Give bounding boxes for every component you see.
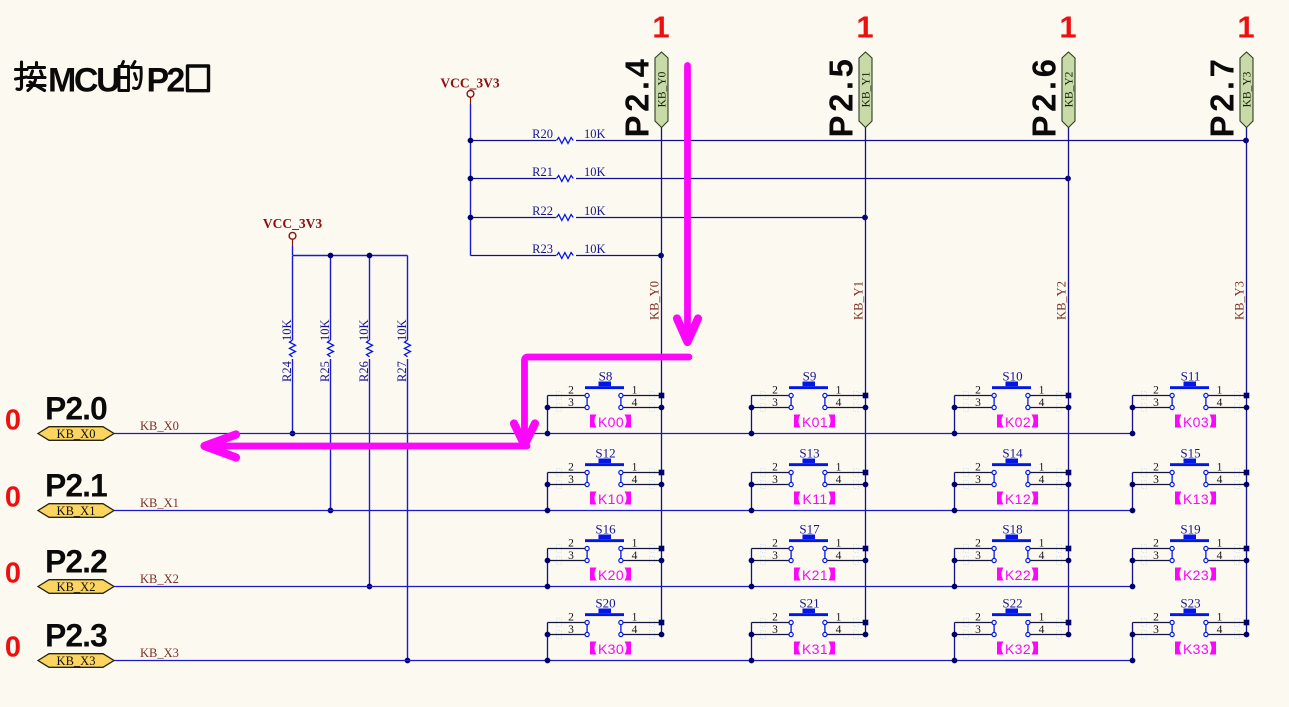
svg-text:3: 3 — [772, 474, 778, 486]
switch S18 (K22) — [955, 522, 1069, 565]
svg-text:K32: K32 — [1005, 641, 1031, 657]
svg-text:KB_X3: KB_X3 — [57, 654, 96, 668]
resistor R22 10K — [471, 204, 866, 221]
connector KB_Y3 (green port) — [1240, 52, 1254, 128]
svg-text:K22: K22 — [1005, 567, 1031, 583]
svg-text:VCC_3V3: VCC_3V3 — [440, 76, 499, 91]
svg-text:3: 3 — [1153, 474, 1159, 486]
junction S13 pin4 / KB_Y1 — [863, 482, 869, 488]
junction R27 / KB_X3 — [405, 658, 411, 664]
svg-text:4: 4 — [632, 474, 638, 486]
svg-text:R25: R25 — [318, 361, 332, 382]
key label K30 — [590, 641, 631, 657]
svg-text:K20: K20 — [598, 567, 624, 583]
svg-text:1: 1 — [1217, 462, 1223, 474]
svg-text:K31: K31 — [802, 641, 828, 657]
svg-text:KB_Y0: KB_Y0 — [648, 281, 662, 320]
svg-text:S20: S20 — [595, 596, 615, 611]
svg-text:4: 4 — [836, 397, 842, 409]
junction S23 / KB_X3 — [1130, 658, 1136, 664]
svg-text:0: 0 — [5, 405, 21, 437]
wire S11 left leg — [1132, 396, 1134, 434]
junction S10 pin4 / KB_Y2 — [1066, 405, 1072, 411]
svg-text:2: 2 — [772, 462, 778, 474]
svg-text:10K: 10K — [318, 319, 332, 341]
key label K21 — [794, 567, 835, 583]
junction S17 pin1 / KB_Y1 — [863, 546, 869, 552]
key label K12 — [997, 491, 1038, 507]
junction S14 / KB_X1 — [952, 508, 958, 514]
junction S14 pin4 / KB_Y2 — [1066, 482, 1072, 488]
svg-text:1: 1 — [632, 538, 638, 550]
svg-text:P2.2: P2.2 — [45, 544, 107, 580]
junction S21 pin1 / KB_Y1 — [863, 620, 869, 626]
svg-text:K10: K10 — [598, 491, 624, 507]
switch S15 (K13) — [1133, 446, 1247, 489]
junction S18 pin4 / KB_Y2 — [1066, 558, 1072, 564]
junction R23 / KB_Y0 — [658, 253, 664, 259]
svg-text:KB_X1: KB_X1 — [140, 496, 179, 510]
junction S8 pin4 / KB_Y0 — [659, 405, 665, 411]
junction S17 / KB_X2 — [749, 584, 755, 590]
svg-text:P2.5: P2.5 — [823, 56, 860, 138]
svg-text:3: 3 — [975, 550, 981, 562]
svg-text:S10: S10 — [1002, 369, 1022, 384]
junction S18 pin3 — [952, 558, 958, 564]
svg-text:4: 4 — [1217, 550, 1223, 562]
junction S15 / KB_X1 — [1130, 508, 1136, 514]
key label K03 — [1175, 414, 1216, 430]
junction S13 pin3 — [749, 482, 755, 488]
resistor R23 10K — [471, 242, 662, 259]
svg-text:S13: S13 — [799, 446, 819, 461]
connector KB_Y2 (green port) — [1062, 52, 1076, 128]
svg-text:KB_X0: KB_X0 — [57, 427, 96, 441]
junction S21 pin3 — [749, 632, 755, 638]
svg-text:3: 3 — [568, 397, 574, 409]
svg-text:2: 2 — [772, 538, 778, 550]
resistor R20 10K — [471, 127, 1247, 144]
svg-text:1: 1 — [856, 10, 873, 45]
key label K33 — [1175, 641, 1216, 657]
svg-text:R22: R22 — [532, 204, 553, 218]
key label K23 — [1175, 567, 1216, 583]
svg-text:1: 1 — [1217, 612, 1223, 624]
switch S11 (K03) — [1133, 369, 1247, 412]
key label K31 — [794, 641, 835, 657]
resistor R21 10K — [471, 165, 1069, 182]
junction VCC bus / R20 — [468, 138, 474, 144]
wire VCC bus horizontal — [292, 246, 294, 255]
svg-text:1: 1 — [836, 462, 842, 474]
junction S21 / KB_X3 — [749, 658, 755, 664]
svg-text:K11: K11 — [802, 491, 827, 507]
switch S9 (K01) — [752, 369, 866, 412]
svg-text:1: 1 — [1039, 612, 1045, 624]
svg-text:4: 4 — [836, 550, 842, 562]
connector KB_Y1 (green port) — [859, 52, 873, 128]
svg-text:S19: S19 — [1180, 522, 1200, 537]
svg-text:3: 3 — [568, 550, 574, 562]
power VCC_3V3 (lower-left) — [263, 216, 322, 246]
junction S9 / KB_X0 — [749, 431, 755, 437]
wire S9 left leg — [751, 396, 753, 434]
svg-text:3: 3 — [975, 397, 981, 409]
junction VCC bus / R26 — [367, 253, 373, 259]
wire S17 left leg — [751, 549, 753, 587]
junction S11 pin3 — [1130, 405, 1136, 411]
junction S22 pin4 / KB_Y2 — [1066, 632, 1072, 638]
annotation arrow left along KB_X0 — [205, 435, 528, 458]
svg-text:3: 3 — [772, 397, 778, 409]
svg-text:3: 3 — [568, 624, 574, 636]
junction VCC bus / R22 — [468, 215, 474, 221]
svg-text:1: 1 — [632, 612, 638, 624]
junction S16 pin3 — [545, 558, 551, 564]
svg-text:P2.7: P2.7 — [1204, 56, 1241, 138]
svg-text:2: 2 — [975, 385, 981, 397]
svg-text:2: 2 — [568, 538, 574, 550]
wire VCC bus vertical — [470, 104, 472, 256]
svg-text:S17: S17 — [799, 522, 820, 537]
svg-text:S23: S23 — [1180, 596, 1200, 611]
svg-text:2: 2 — [975, 538, 981, 550]
svg-text:2: 2 — [568, 612, 574, 624]
connector KB_X1 (yellow port) — [38, 504, 114, 518]
svg-text:10K: 10K — [280, 319, 294, 341]
junction S15 pin4 / KB_Y3 — [1244, 482, 1250, 488]
junction S14 pin1 / KB_Y2 — [1066, 470, 1072, 476]
svg-text:R24: R24 — [280, 360, 294, 382]
svg-text:4: 4 — [1217, 624, 1223, 636]
svg-text:2: 2 — [772, 385, 778, 397]
wire column KB_Y2 — [1068, 128, 1070, 635]
svg-text:2: 2 — [568, 385, 574, 397]
svg-text:VCC_3V3: VCC_3V3 — [263, 216, 322, 231]
svg-text:10K: 10K — [584, 165, 606, 179]
svg-text:2: 2 — [1153, 462, 1159, 474]
svg-text:KB_Y1: KB_Y1 — [861, 71, 873, 107]
junction S23 pin3 — [1130, 632, 1136, 638]
svg-text:P2.4: P2.4 — [619, 56, 656, 138]
junction S10 / KB_X0 — [952, 431, 958, 437]
power VCC_3V3 (upper) — [440, 76, 499, 105]
key label K10 — [590, 491, 631, 507]
svg-text:1: 1 — [1039, 538, 1045, 550]
svg-text:1: 1 — [632, 385, 638, 397]
svg-text:K21: K21 — [802, 567, 828, 583]
svg-text:3: 3 — [975, 624, 981, 636]
junction S20 pin1 / KB_Y0 — [659, 620, 665, 626]
svg-text:KB_X0: KB_X0 — [140, 419, 179, 433]
key label K01 — [794, 414, 835, 430]
junction S9 pin4 / KB_Y1 — [863, 405, 869, 411]
wire column KB_Y1 — [865, 128, 867, 635]
junction S18 pin1 / KB_Y2 — [1066, 546, 1072, 552]
svg-text:3: 3 — [772, 624, 778, 636]
junction S17 pin4 / KB_Y1 — [863, 558, 869, 564]
resistor R26 10K — [357, 256, 373, 587]
junction S12 pin1 / KB_Y0 — [659, 470, 665, 476]
wire S12 left leg — [547, 473, 549, 511]
svg-text:KB_X2: KB_X2 — [57, 580, 96, 594]
junction S11 pin1 / KB_Y3 — [1244, 393, 1250, 399]
junction R22 / KB_Y1 — [862, 215, 868, 221]
svg-text:4: 4 — [1217, 397, 1223, 409]
wire row KB_X2 — [114, 586, 1133, 588]
junction S23 pin4 / KB_Y3 — [1244, 632, 1250, 638]
svg-text:4: 4 — [632, 550, 638, 562]
svg-text:4: 4 — [1039, 550, 1045, 562]
junction S19 pin4 / KB_Y3 — [1244, 558, 1250, 564]
switch S13 (K11) — [752, 446, 866, 489]
svg-text:R20: R20 — [532, 127, 553, 141]
junction S9 pin3 — [749, 405, 755, 411]
svg-text:S15: S15 — [1180, 446, 1200, 461]
svg-text:1: 1 — [1059, 10, 1076, 45]
svg-text:K00: K00 — [598, 414, 624, 430]
junction R24 / KB_X0 — [290, 431, 296, 437]
svg-text:4: 4 — [632, 397, 638, 409]
svg-text:K02: K02 — [1005, 414, 1031, 430]
svg-text:2: 2 — [1153, 538, 1159, 550]
junction S13 pin1 / KB_Y1 — [863, 470, 869, 476]
switch S21 (K31) — [752, 596, 866, 639]
wire S15 left leg — [1132, 473, 1134, 511]
junction S11 pin4 / KB_Y3 — [1244, 405, 1250, 411]
junction S16 / KB_X2 — [545, 584, 551, 590]
wire column KB_Y3 — [1246, 128, 1248, 635]
wire S22 left leg — [954, 623, 956, 661]
svg-text:K30: K30 — [598, 641, 624, 657]
junction S23 pin1 / KB_Y3 — [1244, 620, 1250, 626]
junction S22 pin1 / KB_Y2 — [1066, 620, 1072, 626]
wire S19 left leg — [1132, 549, 1134, 587]
svg-text:R21: R21 — [532, 165, 553, 179]
switch S16 (K20) — [548, 522, 662, 565]
svg-text:KB_X3: KB_X3 — [140, 646, 179, 660]
junction S8 pin1 / KB_Y0 — [659, 393, 665, 399]
svg-text:S22: S22 — [1002, 596, 1022, 611]
svg-text:0: 0 — [5, 558, 21, 590]
wire S14 left leg — [954, 473, 956, 511]
svg-text:1: 1 — [1217, 385, 1223, 397]
junction S21 pin4 / KB_Y1 — [863, 632, 869, 638]
junction S15 pin3 — [1130, 482, 1136, 488]
connector KB_X2 (yellow port) — [38, 580, 114, 594]
wire S8 left leg — [547, 396, 549, 434]
svg-text:MCU: MCU — [48, 62, 119, 100]
svg-text:P2.1: P2.1 — [45, 468, 107, 504]
svg-text:4: 4 — [632, 624, 638, 636]
junction S16 pin1 / KB_Y0 — [659, 546, 665, 552]
junction S10 pin1 / KB_Y2 — [1066, 393, 1072, 399]
junction S17 pin3 — [749, 558, 755, 564]
wire S13 left leg — [751, 473, 753, 511]
wire row KB_X3 — [114, 660, 1133, 662]
svg-text:K12: K12 — [1005, 491, 1031, 507]
svg-text:1: 1 — [632, 462, 638, 474]
resistor R24 10K — [280, 256, 296, 434]
svg-text:S21: S21 — [799, 596, 819, 611]
junction S15 pin1 / KB_Y3 — [1244, 470, 1250, 476]
svg-text:KB_Y2: KB_Y2 — [1055, 281, 1069, 320]
junction S20 pin4 / KB_Y0 — [659, 632, 665, 638]
connector KB_X3 (yellow port) — [38, 654, 114, 668]
junction S11 / KB_X0 — [1130, 431, 1136, 437]
svg-text:1: 1 — [836, 538, 842, 550]
junction R26 / KB_X2 — [367, 584, 373, 590]
wire S23 left leg — [1132, 623, 1134, 661]
junction S19 pin1 / KB_Y3 — [1244, 546, 1250, 552]
svg-text:K23: K23 — [1183, 567, 1209, 583]
svg-text:1: 1 — [1039, 462, 1045, 474]
resistor R27 10K — [395, 256, 411, 661]
switch S19 (K23) — [1133, 522, 1247, 565]
key label K02 — [997, 414, 1038, 430]
resistor R25 10K — [318, 256, 334, 511]
junction S8 / KB_X0 — [545, 431, 551, 437]
junction S12 pin3 — [545, 482, 551, 488]
junction S22 / KB_X3 — [952, 658, 958, 664]
svg-text:KB_Y1: KB_Y1 — [852, 281, 866, 320]
key label K13 — [1175, 491, 1216, 507]
svg-text:2: 2 — [772, 612, 778, 624]
wire S21 left leg — [751, 623, 753, 661]
wire S20 left leg — [547, 623, 549, 661]
svg-text:0: 0 — [5, 482, 21, 514]
junction S19 pin3 — [1130, 558, 1136, 564]
junction S8 pin3 — [545, 405, 551, 411]
svg-text:4: 4 — [836, 624, 842, 636]
svg-text:K01: K01 — [802, 414, 828, 430]
wire column KB_Y0 — [661, 128, 663, 635]
svg-text:4: 4 — [836, 474, 842, 486]
svg-text:R27: R27 — [395, 361, 409, 382]
junction R25 / KB_X1 — [328, 508, 334, 514]
junction S16 pin4 / KB_Y0 — [659, 558, 665, 564]
switch S8 (K00) — [548, 369, 662, 412]
svg-text:3: 3 — [1153, 624, 1159, 636]
junction R21 / KB_Y2 — [1065, 176, 1071, 182]
switch S22 (K32) — [955, 596, 1069, 639]
key label K20 — [590, 567, 631, 583]
svg-text:2: 2 — [1153, 385, 1159, 397]
svg-text:R23: R23 — [532, 242, 553, 256]
svg-text:P2.3: P2.3 — [45, 618, 107, 654]
svg-text:2: 2 — [568, 462, 574, 474]
svg-text:S8: S8 — [599, 369, 613, 384]
svg-text:S12: S12 — [595, 446, 615, 461]
svg-text:4: 4 — [1217, 474, 1223, 486]
junction S10 pin3 — [952, 405, 958, 411]
svg-text:K13: K13 — [1183, 491, 1209, 507]
svg-text:1: 1 — [1217, 538, 1223, 550]
svg-text:P2.6: P2.6 — [1026, 56, 1063, 138]
svg-text:K03: K03 — [1183, 414, 1209, 430]
svg-text:4: 4 — [1039, 624, 1045, 636]
junction S20 pin3 — [545, 632, 551, 638]
switch S10 (K02) — [955, 369, 1069, 412]
svg-text:KB_Y0: KB_Y0 — [657, 71, 669, 107]
svg-text:KB_Y3: KB_Y3 — [1233, 281, 1247, 320]
svg-text:3: 3 — [772, 550, 778, 562]
svg-text:KB_Y3: KB_Y3 — [1242, 71, 1254, 107]
svg-text:1: 1 — [1237, 10, 1254, 45]
svg-text:KB_X1: KB_X1 — [57, 504, 96, 518]
svg-text:1: 1 — [652, 10, 669, 45]
svg-text:10K: 10K — [395, 319, 409, 341]
switch S17 (K21) — [752, 522, 866, 565]
junction S22 pin3 — [952, 632, 958, 638]
svg-text:4: 4 — [1039, 474, 1045, 486]
junction VCC bus / R25 — [328, 253, 334, 259]
svg-text:10K: 10K — [584, 127, 606, 141]
svg-text:P2.0: P2.0 — [45, 391, 107, 427]
annotation arrow down from P2.4 — [677, 66, 698, 343]
junction S12 pin4 / KB_Y0 — [659, 482, 665, 488]
svg-text:1: 1 — [836, 385, 842, 397]
svg-text:10K: 10K — [357, 319, 371, 341]
junction R20 / KB_Y3 — [1243, 138, 1249, 144]
wire S18 left leg — [954, 549, 956, 587]
svg-text:3: 3 — [568, 474, 574, 486]
wire S10 left leg — [954, 396, 956, 434]
junction S19 / KB_X2 — [1130, 584, 1136, 590]
svg-text:KB_Y2: KB_Y2 — [1064, 71, 1076, 107]
svg-text:2: 2 — [975, 612, 981, 624]
wire row KB_X0 — [114, 433, 1133, 435]
svg-text:4: 4 — [1039, 397, 1045, 409]
svg-text:2: 2 — [975, 462, 981, 474]
wire S16 left leg — [547, 549, 549, 587]
svg-text:10K: 10K — [584, 242, 606, 256]
svg-text:P2: P2 — [147, 62, 185, 100]
svg-text:S9: S9 — [803, 369, 817, 384]
svg-text:1: 1 — [1039, 385, 1045, 397]
svg-text:3: 3 — [975, 474, 981, 486]
annotation arrow elbow down to row — [514, 357, 689, 445]
svg-text:K33: K33 — [1183, 641, 1209, 657]
switch S20 (K30) — [548, 596, 662, 639]
svg-text:S14: S14 — [1002, 446, 1023, 461]
svg-text:S16: S16 — [595, 522, 616, 537]
svg-text:KB_X2: KB_X2 — [140, 572, 179, 586]
junction S14 pin3 — [952, 482, 958, 488]
svg-text:R26: R26 — [357, 361, 371, 382]
key label K00 — [590, 414, 631, 430]
svg-text:S18: S18 — [1002, 522, 1022, 537]
switch S23 (K33) — [1133, 596, 1247, 639]
key label K11 — [794, 491, 835, 507]
svg-text:2: 2 — [1153, 612, 1159, 624]
junction VCC bus / R21 — [468, 176, 474, 182]
svg-text:10K: 10K — [584, 204, 606, 218]
key label K32 — [997, 641, 1038, 657]
wire row KB_X1 — [114, 510, 1133, 512]
switch S14 (K12) — [955, 446, 1069, 489]
connector KB_Y0 (green port) — [655, 52, 669, 128]
svg-text:3: 3 — [1153, 550, 1159, 562]
switch S12 (K10) — [548, 446, 662, 489]
junction S13 / KB_X1 — [749, 508, 755, 514]
svg-text:1: 1 — [836, 612, 842, 624]
junction S20 / KB_X3 — [545, 658, 551, 664]
junction S18 / KB_X2 — [952, 584, 958, 590]
connector KB_X0 (yellow port) — [38, 427, 114, 441]
title 接MCU的P2口 — [16, 62, 209, 100]
svg-text:S11: S11 — [1181, 369, 1201, 384]
